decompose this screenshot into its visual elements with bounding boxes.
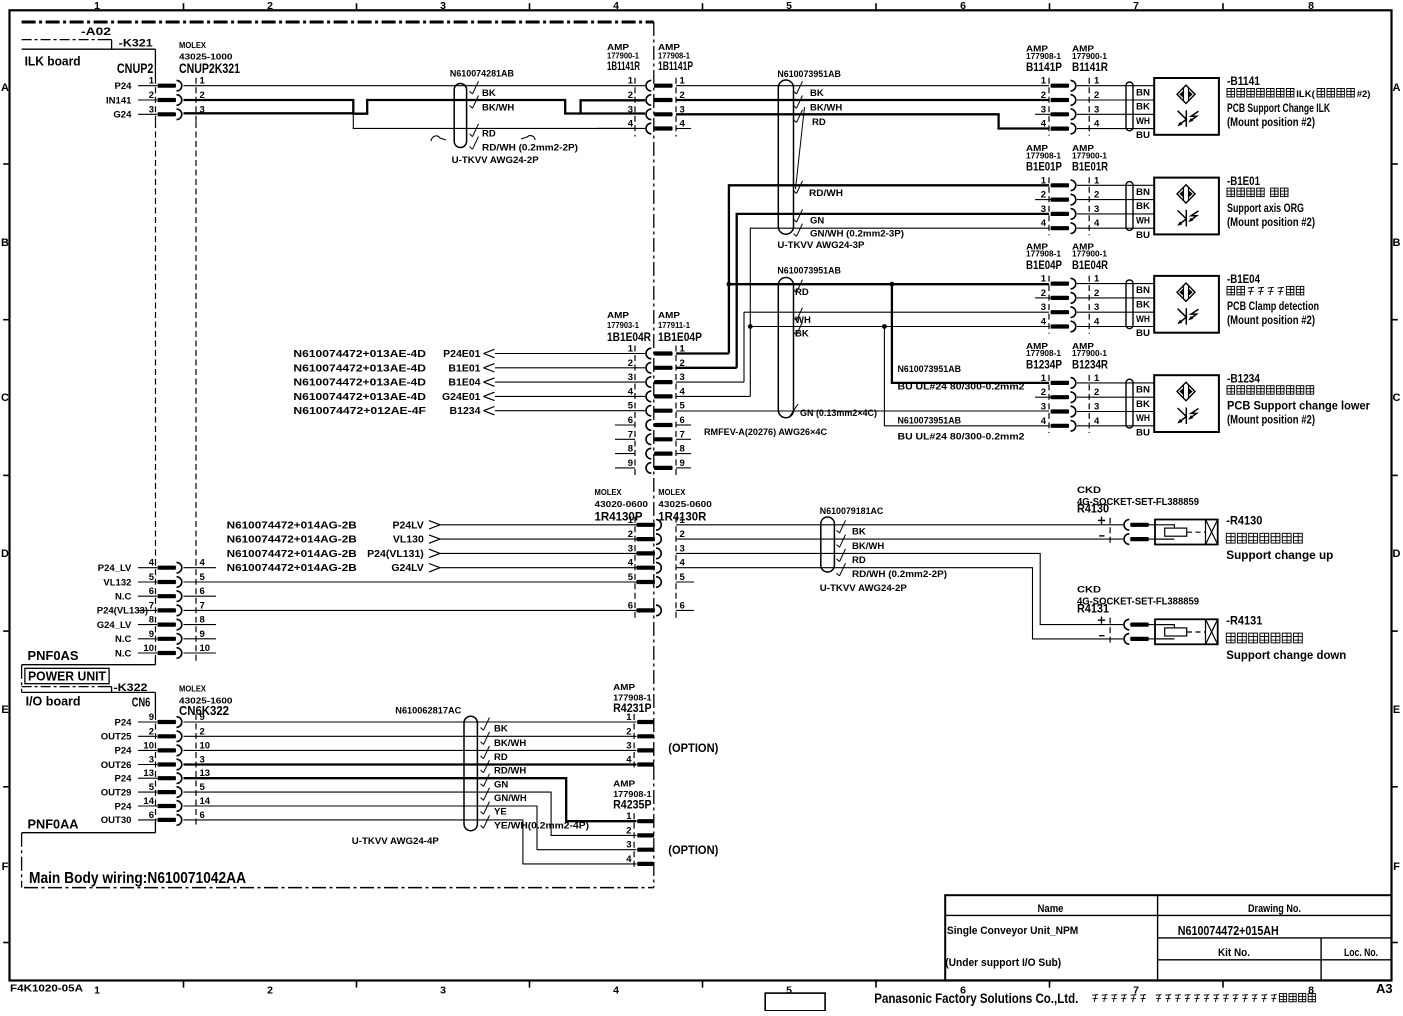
svg-text:(Mount position #2): (Mount position #2) bbox=[1227, 414, 1315, 426]
svg-text:BK: BK bbox=[1136, 201, 1151, 211]
svg-text:RD/WH (0.2mm2-2P): RD/WH (0.2mm2-2P) bbox=[482, 143, 578, 154]
svg-text:7: 7 bbox=[628, 429, 633, 440]
svg-text:3: 3 bbox=[1041, 302, 1046, 313]
svg-text:B1234: B1234 bbox=[450, 405, 481, 417]
svg-text:BN: BN bbox=[1136, 285, 1150, 295]
svg-text:B: B bbox=[1, 237, 9, 249]
svg-text:4: 4 bbox=[628, 386, 634, 397]
svg-text:E: E bbox=[1393, 704, 1400, 716]
svg-text:PNF0AA: PNF0AA bbox=[28, 817, 80, 832]
svg-text:4: 4 bbox=[626, 854, 632, 865]
svg-text:1: 1 bbox=[94, 985, 100, 997]
svg-text:177911-1: 177911-1 bbox=[658, 320, 690, 330]
svg-text:1: 1 bbox=[1094, 76, 1100, 87]
svg-text:2: 2 bbox=[1094, 190, 1099, 201]
svg-text:9: 9 bbox=[200, 629, 205, 640]
svg-text:BK: BK bbox=[795, 329, 809, 340]
svg-text:N610074472+014AG-2B: N610074472+014AG-2B bbox=[227, 548, 357, 560]
svg-text:AMP: AMP bbox=[613, 779, 635, 789]
svg-text:3: 3 bbox=[1094, 204, 1099, 215]
svg-text:B1E01R: B1E01R bbox=[1072, 160, 1108, 174]
svg-text:3: 3 bbox=[680, 372, 685, 383]
svg-text:N610074472+014AG-2B: N610074472+014AG-2B bbox=[227, 519, 357, 531]
svg-text:BU UL#24 80/300-0.2mm2: BU UL#24 80/300-0.2mm2 bbox=[898, 432, 1025, 443]
svg-text:N610074472+013AE-4D: N610074472+013AE-4D bbox=[293, 348, 426, 360]
svg-text:177903-1: 177903-1 bbox=[607, 320, 639, 330]
svg-text:U-TKVV AWG24-3P: U-TKVV AWG24-3P bbox=[777, 240, 865, 251]
svg-text:PCB Support change lower: PCB Support change lower bbox=[1227, 400, 1370, 412]
svg-text:P24: P24 bbox=[114, 81, 132, 92]
svg-text:2: 2 bbox=[1041, 90, 1046, 101]
svg-text:N610074472+014AG-2B: N610074472+014AG-2B bbox=[227, 534, 357, 546]
svg-text:8: 8 bbox=[149, 615, 154, 626]
svg-text:WH: WH bbox=[1136, 314, 1150, 324]
svg-text:Kit No.: Kit No. bbox=[1218, 947, 1250, 959]
svg-text:F: F bbox=[1393, 861, 1400, 873]
svg-text:-R4130: -R4130 bbox=[1226, 514, 1262, 528]
svg-text:P24(VL131): P24(VL131) bbox=[367, 548, 424, 560]
svg-text:IN141: IN141 bbox=[106, 95, 132, 106]
svg-text:1B1E04R: 1B1E04R bbox=[607, 330, 651, 344]
svg-text:3: 3 bbox=[1041, 402, 1046, 413]
svg-text:N610074472+013AE-4D: N610074472+013AE-4D bbox=[293, 362, 426, 374]
svg-text:(OPTION): (OPTION) bbox=[668, 743, 718, 755]
svg-text:8: 8 bbox=[1308, 0, 1314, 12]
svg-text:#2): #2) bbox=[1357, 89, 1371, 100]
svg-text:ILK board: ILK board bbox=[25, 54, 81, 69]
svg-text:YE/WH(0.2mm2-4P): YE/WH(0.2mm2-4P) bbox=[494, 821, 589, 832]
svg-text:6: 6 bbox=[628, 415, 633, 426]
svg-text:3: 3 bbox=[1041, 204, 1046, 215]
svg-text:3: 3 bbox=[626, 840, 631, 851]
svg-text:1: 1 bbox=[626, 811, 632, 822]
svg-text:3: 3 bbox=[1094, 104, 1099, 115]
svg-text:4: 4 bbox=[626, 755, 632, 766]
svg-text:1: 1 bbox=[1094, 175, 1100, 186]
svg-text:R4231P: R4231P bbox=[613, 701, 652, 715]
svg-text:8: 8 bbox=[628, 444, 633, 455]
svg-text:VL132: VL132 bbox=[103, 577, 131, 588]
svg-text:(Mount position #2): (Mount position #2) bbox=[1227, 217, 1315, 229]
svg-text:OUT30: OUT30 bbox=[101, 815, 132, 826]
svg-text:BK: BK bbox=[482, 88, 496, 99]
svg-text:B1141R: B1141R bbox=[1072, 60, 1108, 74]
svg-text:N610079181AC: N610079181AC bbox=[820, 506, 884, 517]
svg-text:R4130: R4130 bbox=[1077, 502, 1109, 516]
svg-text:RD: RD bbox=[795, 287, 809, 298]
svg-text:G24LV: G24LV bbox=[391, 562, 423, 574]
svg-text:1: 1 bbox=[680, 76, 686, 87]
svg-text:WH: WH bbox=[1136, 116, 1150, 126]
svg-text:B1E01P: B1E01P bbox=[1026, 160, 1062, 174]
svg-text:BU UL#24 80/300-0.2mm2: BU UL#24 80/300-0.2mm2 bbox=[898, 382, 1025, 393]
svg-text:3: 3 bbox=[628, 372, 633, 383]
svg-text:OUT25: OUT25 bbox=[101, 732, 132, 743]
svg-text:1: 1 bbox=[628, 76, 634, 87]
svg-text:1: 1 bbox=[628, 344, 634, 355]
svg-text:1: 1 bbox=[1041, 76, 1047, 87]
svg-text:G24_LV: G24_LV bbox=[97, 620, 132, 631]
svg-text:GN/WH (0.2mm2-3P): GN/WH (0.2mm2-3P) bbox=[810, 229, 904, 240]
svg-text:A: A bbox=[1393, 82, 1401, 94]
svg-text:5: 5 bbox=[786, 985, 792, 997]
svg-text:N610074472+013AE-4D: N610074472+013AE-4D bbox=[293, 391, 426, 403]
svg-text:N610074281AB: N610074281AB bbox=[450, 68, 514, 79]
svg-text:3: 3 bbox=[680, 543, 685, 554]
svg-text:7: 7 bbox=[149, 600, 154, 611]
svg-text:BK/WH: BK/WH bbox=[852, 541, 884, 552]
svg-text:10: 10 bbox=[200, 643, 211, 654]
svg-text:(Mount position #2): (Mount position #2) bbox=[1227, 117, 1315, 129]
svg-text:2: 2 bbox=[628, 529, 633, 540]
svg-text:9: 9 bbox=[680, 458, 685, 469]
svg-text:6: 6 bbox=[680, 415, 685, 426]
svg-text:BK: BK bbox=[852, 526, 866, 537]
svg-text:7: 7 bbox=[1133, 0, 1139, 12]
svg-text:A: A bbox=[1, 82, 9, 94]
svg-text:5: 5 bbox=[628, 401, 634, 412]
svg-text:P24_LV: P24_LV bbox=[98, 563, 132, 574]
svg-text:-B1234: -B1234 bbox=[1227, 371, 1260, 385]
svg-text:2: 2 bbox=[626, 726, 631, 737]
svg-text:10: 10 bbox=[200, 740, 211, 751]
svg-text:PNF0AS: PNF0AS bbox=[28, 648, 79, 663]
svg-text:4: 4 bbox=[1094, 218, 1100, 229]
svg-text:(Mount position #2): (Mount position #2) bbox=[1227, 315, 1315, 327]
svg-text:4: 4 bbox=[613, 985, 619, 997]
svg-text:2: 2 bbox=[628, 358, 633, 369]
svg-text:RD/WH (0.2mm2-2P): RD/WH (0.2mm2-2P) bbox=[852, 569, 947, 580]
svg-text:CNUP2: CNUP2 bbox=[117, 60, 154, 76]
svg-text:4: 4 bbox=[1041, 317, 1047, 328]
svg-text:B1E01: B1E01 bbox=[448, 362, 480, 374]
svg-text:4: 4 bbox=[1041, 218, 1047, 229]
svg-text:C: C bbox=[1, 392, 9, 404]
svg-text:3: 3 bbox=[1094, 402, 1099, 413]
svg-text:13: 13 bbox=[143, 768, 154, 779]
svg-text:-K321: -K321 bbox=[119, 38, 153, 50]
svg-text:4: 4 bbox=[200, 558, 206, 569]
svg-text:OUT29: OUT29 bbox=[101, 787, 132, 798]
svg-text:PCB Clamp detection: PCB Clamp detection bbox=[1227, 301, 1319, 313]
svg-text:-R4131: -R4131 bbox=[1226, 613, 1262, 627]
svg-text:3: 3 bbox=[440, 0, 446, 12]
svg-text:BN: BN bbox=[1136, 385, 1150, 395]
svg-text:BK: BK bbox=[1136, 102, 1151, 112]
svg-text:6: 6 bbox=[149, 586, 154, 597]
svg-text:8: 8 bbox=[680, 444, 685, 455]
svg-text:MOLEX: MOLEX bbox=[179, 684, 206, 694]
svg-text:10: 10 bbox=[143, 643, 154, 654]
svg-text:MOLEX: MOLEX bbox=[179, 40, 206, 50]
svg-text:P24: P24 bbox=[114, 801, 132, 812]
svg-text:7: 7 bbox=[200, 600, 205, 611]
svg-text:5: 5 bbox=[200, 782, 206, 793]
svg-text:2: 2 bbox=[267, 0, 273, 12]
svg-text:2: 2 bbox=[1094, 90, 1099, 101]
svg-text:GN (0.13mm2×4C): GN (0.13mm2×4C) bbox=[800, 408, 877, 419]
svg-text:MOLEX: MOLEX bbox=[595, 487, 622, 497]
svg-text:G24E01: G24E01 bbox=[442, 391, 481, 403]
svg-text:6: 6 bbox=[960, 0, 966, 12]
svg-text:N610074472+012AE-4F: N610074472+012AE-4F bbox=[293, 405, 426, 417]
svg-text:6: 6 bbox=[200, 810, 205, 821]
svg-text:RD: RD bbox=[812, 117, 826, 128]
svg-text:BK: BK bbox=[810, 88, 824, 99]
svg-text:1: 1 bbox=[1094, 274, 1100, 285]
svg-text:4: 4 bbox=[628, 558, 634, 569]
svg-text:P24: P24 bbox=[114, 717, 132, 728]
svg-text:-B1141: -B1141 bbox=[1227, 74, 1260, 88]
svg-text:Support change down: Support change down bbox=[1226, 650, 1346, 662]
svg-text:GN/WH: GN/WH bbox=[494, 793, 527, 804]
svg-text:5: 5 bbox=[786, 0, 792, 12]
svg-text:BK: BK bbox=[1136, 399, 1151, 409]
svg-text:3: 3 bbox=[628, 543, 633, 554]
svg-text:E: E bbox=[1, 704, 8, 716]
svg-text:1B1E04P: 1B1E04P bbox=[658, 330, 702, 344]
svg-text:PCB Support Change ILK: PCB Support Change ILK bbox=[1227, 103, 1331, 115]
svg-text:B: B bbox=[1393, 237, 1401, 249]
svg-text:WH: WH bbox=[1136, 216, 1150, 226]
svg-text:F4K1020-05A: F4K1020-05A bbox=[10, 983, 83, 995]
svg-text:8: 8 bbox=[1308, 985, 1314, 997]
svg-text:1: 1 bbox=[1094, 373, 1100, 384]
svg-text:8: 8 bbox=[200, 615, 205, 626]
svg-text:3: 3 bbox=[1094, 302, 1099, 313]
svg-text:N610074472+015AH: N610074472+015AH bbox=[1178, 924, 1279, 938]
svg-text:N610073951AB: N610073951AB bbox=[777, 69, 841, 80]
svg-text:A3: A3 bbox=[1376, 981, 1393, 996]
svg-text:6: 6 bbox=[628, 600, 633, 611]
svg-text:3: 3 bbox=[149, 755, 154, 766]
svg-text:RD: RD bbox=[852, 555, 866, 566]
svg-text:1B1141P: 1B1141P bbox=[658, 59, 693, 73]
svg-text:2: 2 bbox=[628, 90, 633, 101]
svg-text:3: 3 bbox=[1041, 104, 1046, 115]
svg-text:BU: BU bbox=[1136, 328, 1150, 338]
svg-text:MOLEX: MOLEX bbox=[658, 487, 685, 497]
svg-text:1: 1 bbox=[1041, 175, 1047, 186]
svg-text:Main Body wiring:N610071042AA: Main Body wiring:N610071042AA bbox=[29, 870, 246, 887]
svg-text:1: 1 bbox=[1041, 274, 1047, 285]
svg-text:N.C: N.C bbox=[115, 648, 132, 659]
svg-text:2: 2 bbox=[626, 825, 631, 836]
svg-text:Support change up: Support change up bbox=[1226, 550, 1333, 562]
svg-text:3: 3 bbox=[440, 985, 446, 997]
svg-text:ILK(: ILK( bbox=[1296, 89, 1315, 100]
svg-text:BU: BU bbox=[1136, 130, 1150, 140]
svg-text:Support axis ORG: Support axis ORG bbox=[1227, 203, 1304, 215]
svg-text:6: 6 bbox=[149, 810, 154, 821]
svg-text:9: 9 bbox=[149, 629, 154, 640]
svg-text:1: 1 bbox=[200, 76, 206, 87]
svg-text:RD/WH: RD/WH bbox=[494, 766, 526, 777]
svg-text:R4235P: R4235P bbox=[613, 798, 652, 812]
svg-text:14: 14 bbox=[143, 796, 154, 807]
svg-text:4: 4 bbox=[613, 0, 619, 12]
svg-text:B1E04R: B1E04R bbox=[1072, 258, 1108, 272]
svg-text:BU: BU bbox=[1136, 427, 1150, 437]
svg-text:BN: BN bbox=[1136, 187, 1150, 197]
svg-text:4: 4 bbox=[680, 558, 686, 569]
svg-text:Drawing No.: Drawing No. bbox=[1248, 903, 1301, 915]
svg-text:BU: BU bbox=[1136, 230, 1150, 240]
svg-text:(Under support I/O Sub): (Under support I/O Sub) bbox=[945, 957, 1061, 969]
svg-text:D: D bbox=[1, 548, 9, 560]
svg-text:AMP: AMP bbox=[613, 682, 635, 692]
svg-text:1R4130R: 1R4130R bbox=[658, 510, 706, 524]
svg-text:GN: GN bbox=[494, 779, 508, 790]
svg-text:P24(VL133): P24(VL133) bbox=[97, 606, 148, 617]
svg-text:1: 1 bbox=[149, 76, 155, 87]
svg-text:B1E04P: B1E04P bbox=[1026, 258, 1062, 272]
svg-text:4: 4 bbox=[1041, 119, 1047, 130]
svg-text:I/O board: I/O board bbox=[26, 694, 81, 709]
svg-text:BK/WH: BK/WH bbox=[810, 103, 842, 114]
svg-text:9: 9 bbox=[628, 458, 633, 469]
svg-text:CNUP2K321: CNUP2K321 bbox=[179, 60, 240, 76]
svg-text:RMFEV-A(20276) AWG26×4C: RMFEV-A(20276) AWG26×4C bbox=[704, 427, 827, 438]
svg-text:POWER UNIT: POWER UNIT bbox=[28, 669, 106, 684]
svg-text:BK/WH: BK/WH bbox=[494, 738, 526, 749]
svg-text:9: 9 bbox=[149, 712, 154, 723]
svg-text:1B1141R: 1B1141R bbox=[607, 59, 640, 73]
svg-text:OUT26: OUT26 bbox=[101, 760, 132, 771]
svg-text:1: 1 bbox=[94, 0, 100, 12]
svg-text:2: 2 bbox=[149, 726, 154, 737]
svg-text:BK: BK bbox=[1136, 300, 1151, 310]
svg-text:-A02: -A02 bbox=[81, 26, 111, 38]
svg-text:RD: RD bbox=[494, 752, 508, 763]
svg-text:N610073951AB: N610073951AB bbox=[898, 416, 962, 427]
svg-text:CN6: CN6 bbox=[132, 695, 151, 710]
svg-text:CKD: CKD bbox=[1077, 585, 1101, 596]
svg-text:N610074472+014AG-2B: N610074472+014AG-2B bbox=[227, 562, 357, 574]
svg-text:YE: YE bbox=[494, 807, 507, 818]
svg-text:RD: RD bbox=[482, 129, 496, 140]
svg-text:Panasonic Factory Solutions Co: Panasonic Factory Solutions Co.,Ltd. bbox=[874, 991, 1078, 1006]
svg-text:2: 2 bbox=[200, 726, 205, 737]
svg-text:WH: WH bbox=[1136, 413, 1150, 423]
svg-text:14: 14 bbox=[200, 796, 211, 807]
svg-text:5: 5 bbox=[680, 572, 686, 583]
svg-text:AMP: AMP bbox=[607, 310, 629, 320]
svg-text:2: 2 bbox=[149, 90, 154, 101]
svg-text:GN: GN bbox=[810, 216, 824, 227]
svg-text:4: 4 bbox=[1094, 119, 1100, 130]
svg-text:B1234R: B1234R bbox=[1072, 357, 1108, 371]
svg-text:R4131: R4131 bbox=[1077, 602, 1109, 616]
svg-text:AMP: AMP bbox=[658, 310, 680, 320]
svg-text:Single Conveyor Unit_NPM: Single Conveyor Unit_NPM bbox=[947, 925, 1078, 937]
svg-text:7: 7 bbox=[680, 429, 685, 440]
svg-text:P24E01: P24E01 bbox=[443, 348, 481, 360]
svg-text:3: 3 bbox=[149, 104, 154, 115]
svg-text:1: 1 bbox=[1041, 373, 1047, 384]
svg-text:1: 1 bbox=[626, 712, 632, 723]
svg-text:2: 2 bbox=[1094, 288, 1099, 299]
svg-text:4: 4 bbox=[680, 119, 686, 130]
svg-text:U-TKVV AWG24-4P: U-TKVV AWG24-4P bbox=[352, 836, 440, 847]
svg-text:2: 2 bbox=[1041, 387, 1046, 398]
svg-text:WH: WH bbox=[795, 315, 811, 326]
svg-text:BN: BN bbox=[1136, 87, 1150, 97]
svg-text:B1141P: B1141P bbox=[1026, 60, 1062, 74]
svg-text:B1E04: B1E04 bbox=[448, 377, 480, 389]
svg-text:VL130: VL130 bbox=[393, 534, 424, 546]
svg-text:Name: Name bbox=[1038, 903, 1064, 915]
svg-text:CN6K322: CN6K322 bbox=[179, 703, 229, 718]
svg-text:4: 4 bbox=[680, 386, 686, 397]
svg-text:U-TKVV AWG24-2P: U-TKVV AWG24-2P bbox=[820, 583, 908, 594]
svg-text:4: 4 bbox=[1094, 416, 1100, 427]
svg-text:BK: BK bbox=[494, 724, 508, 735]
svg-text:-B1E01: -B1E01 bbox=[1227, 174, 1260, 188]
svg-text:D: D bbox=[1393, 548, 1401, 560]
svg-text:4: 4 bbox=[1041, 416, 1047, 427]
svg-text:5: 5 bbox=[149, 572, 155, 583]
svg-text:B1234P: B1234P bbox=[1026, 357, 1062, 371]
svg-text:2: 2 bbox=[1041, 288, 1046, 299]
svg-text:CKD: CKD bbox=[1077, 485, 1101, 496]
svg-text:U-TKVV AWG24-2P: U-TKVV AWG24-2P bbox=[452, 155, 540, 166]
svg-text:5: 5 bbox=[200, 572, 206, 583]
svg-text:43025-0600: 43025-0600 bbox=[658, 499, 712, 509]
svg-text:-B1E04: -B1E04 bbox=[1227, 272, 1260, 286]
svg-text:BK/WH: BK/WH bbox=[482, 103, 514, 114]
svg-text:Loc. No.: Loc. No. bbox=[1344, 947, 1378, 959]
svg-text:N610074472+013AE-4D: N610074472+013AE-4D bbox=[293, 377, 426, 389]
svg-text:P24LV: P24LV bbox=[392, 519, 423, 531]
svg-text:5: 5 bbox=[149, 782, 155, 793]
svg-text:2: 2 bbox=[267, 985, 273, 997]
svg-text:4: 4 bbox=[149, 558, 155, 569]
svg-text:5: 5 bbox=[680, 401, 686, 412]
svg-text:3: 3 bbox=[626, 740, 631, 751]
svg-text:N.C: N.C bbox=[115, 592, 132, 603]
svg-text:43020-0600: 43020-0600 bbox=[595, 499, 649, 509]
svg-text:RD/WH: RD/WH bbox=[809, 188, 843, 199]
svg-text:3: 3 bbox=[628, 104, 633, 115]
svg-text:2: 2 bbox=[1094, 387, 1099, 398]
svg-text:N610073951AB: N610073951AB bbox=[898, 364, 962, 375]
svg-text:4: 4 bbox=[1094, 317, 1100, 328]
svg-text:1R4130P: 1R4130P bbox=[595, 510, 643, 524]
svg-text:N610062817AC: N610062817AC bbox=[395, 706, 461, 717]
svg-text:(OPTION): (OPTION) bbox=[668, 845, 718, 857]
svg-text:P24: P24 bbox=[114, 746, 132, 757]
svg-text:G24: G24 bbox=[113, 110, 132, 121]
svg-text:P24: P24 bbox=[114, 774, 132, 785]
svg-text:5: 5 bbox=[628, 572, 634, 583]
svg-text:2: 2 bbox=[680, 529, 685, 540]
svg-text:6: 6 bbox=[200, 586, 205, 597]
svg-text:10: 10 bbox=[143, 740, 154, 751]
svg-text:N.C: N.C bbox=[115, 634, 132, 645]
svg-text:F: F bbox=[2, 861, 9, 873]
svg-text:2: 2 bbox=[1041, 190, 1046, 201]
svg-text:N610073951AB: N610073951AB bbox=[777, 265, 841, 276]
svg-text:C: C bbox=[1393, 392, 1401, 404]
svg-text:6: 6 bbox=[680, 600, 685, 611]
